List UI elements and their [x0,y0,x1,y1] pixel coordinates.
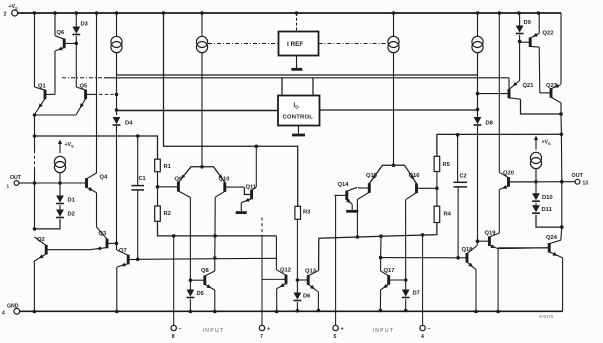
wire Q10 base to Q11 base jog [244,187,250,194]
wire Io CONTROL ground stem [298,126,300,134]
transistor Q10 [215,176,244,197]
wire Q13 emitter to gnd [317,292,319,311]
wire CS1 to D4 node [116,53,118,116]
wire Q17 emitter to gnd [379,290,381,311]
wire OUT node vertical dashed part [34,150,36,170]
wire D6 to gnd [296,302,298,311]
diode D10 [532,193,553,201]
wire Q12 base from pin7 line [262,278,284,280]
node CS4/Io line [476,108,480,112]
wire I REF to CS3 (dash-dot) [319,43,390,45]
wire R5-R4 [436,172,438,207]
svg-text:C2: C2 [460,174,467,180]
ground Io CONTROL ground [292,134,305,137]
wire Q12 collector up to H1 corner [275,236,277,270]
wire D8 down to Q19 base node [477,126,479,241]
svg-text:Q12: Q12 [280,268,291,274]
node Q8 gnd [213,310,217,314]
transistor Q12 [277,268,291,289]
ground Q14 ground [346,210,358,213]
node Q15 collector on H2 [356,235,360,239]
resistor R1 [155,159,172,172]
node Q2 gnd [33,310,37,314]
node D6/Q12/Q13 base node [296,278,300,282]
resistor R2 [155,206,171,221]
svg-text:–: – [179,327,182,333]
wire D4 node down [116,126,118,243]
diode D9 [516,20,532,34]
wire y136 line [35,136,158,159]
svg-text:Q10: Q10 [219,176,230,182]
node Q11 collector junction [254,145,258,149]
svg-text:Q22: Q22 [543,31,554,37]
node C1 top [136,134,140,138]
node Q7 base junction [136,258,140,262]
svg-text:OUT: OUT [572,173,584,179]
transistor Q1 [35,83,56,114]
svg-text:Q5: Q5 [80,83,89,89]
wire R3 down to D6 node [296,219,298,280]
diode D3 [75,13,77,27]
node Q8 base [189,278,193,282]
svg-text:Q14: Q14 [338,182,350,188]
resistor R5 [434,156,451,171]
transistor Q23 [540,83,561,103]
svg-text:CONTROL: CONTROL [283,115,314,121]
wire y257.5 line right [381,257,459,259]
wire x562 to Q24 collector [561,227,562,240]
wire C1 bottom stem [137,190,139,259]
wire Q16 collector down to Q17 base [405,200,407,280]
wire D7 to gnd [405,299,407,310]
node Q6 base [75,42,79,46]
transistor Q2 [34,237,89,261]
wire CS3 tail [393,53,395,165]
wire CS2 tail [201,53,203,167]
svg-text:R4: R4 [444,212,452,218]
wire R1 to Q9 base node [157,172,159,206]
wire D9 node down to Q21 emitter [519,41,521,80]
node C2 top tap [456,133,460,137]
wire Q9 collector down to Q8 base [189,198,191,281]
svg-text:R5: R5 [443,162,451,168]
resistor R4 [434,206,452,222]
wire Q8 collector up [214,258,216,271]
node D11 bottom junction [560,225,564,229]
svg-text:D10: D10 [542,195,553,201]
wire I REF ground stem [296,56,298,69]
svg-text:+VS: +VS [9,4,19,11]
ground Q11 ground [236,211,247,214]
wire Q18 emitter to gnd [475,270,477,312]
wire Q5 base dash-dot to CS1 line [99,93,114,95]
svg-text:Q18: Q18 [462,247,474,253]
diode D7 [402,290,420,298]
wire D3 node to Q5 collector [75,43,77,87]
wire x562 rail drop mid [560,114,562,134]
transistor Q11 [241,184,257,202]
transistor Q9 [158,176,191,197]
node right rail x562 y134 [560,133,564,137]
wire tail to Q10 [202,167,225,183]
node Q18 gnd [474,310,478,314]
diode D3 [72,22,88,35]
block Io CONTROL [278,96,320,126]
transistor Q22 [520,31,554,48]
wire x381 H2 to y257 [380,236,382,257]
wire D11 to junction [536,215,562,227]
svg-text:Q23: Q23 [546,83,558,89]
node Q13 gnd [317,309,321,313]
svg-text:Q11: Q11 [246,184,257,190]
svg-text:Q20: Q20 [503,171,514,177]
wire B line drop to Q21 [508,78,510,89]
wire Q6 collector to rail [54,13,56,36]
wire bias line B solid to Q21 [104,77,509,79]
node Q16 base feed [435,187,439,191]
svg-text:D11: D11 [542,207,553,213]
svg-text:7: 7 [260,334,263,340]
wire CS3 feed [393,13,395,37]
diode D6 [294,293,312,301]
svg-text:S-9176: S-9176 [539,314,554,319]
transistor Q16 [406,173,437,200]
wire Q21 collector path [521,99,562,114]
svg-text:R2: R2 [164,211,171,217]
node Q4 base feed [58,181,62,185]
current source CS2 [196,36,207,52]
current source CS6 right [530,152,541,168]
node D2 junction [33,227,37,231]
wire Q4 emitter to Q3 [96,193,98,227]
resistor R3 [295,206,311,219]
wire right rail drop to Q23 emitter [560,13,562,84]
wire bias drop left into Io CONTROL [281,78,283,96]
svg-text:Q24: Q24 [546,235,558,241]
wire D9 to Q22 base node [519,35,521,41]
wire D1 stem [59,183,61,196]
terminal pin 8 input- [171,325,182,340]
svg-text:Q17: Q17 [384,268,395,274]
wire D1-D2 [59,205,61,209]
wire bias line A (CS1 to CS4) [117,74,478,76]
terminal pin 5 input+ [333,325,345,340]
wire Q13 collector up to H2 [319,223,437,271]
wire Q19 emitter to Q24 base [498,247,548,250]
wire Q4 collector to rail [96,13,98,173]
svg-text:Q8: Q8 [201,268,210,274]
node Q18 base / C2 [456,256,460,260]
node Q3 base [115,242,119,246]
diode D1 [56,196,76,204]
current source CS1 [111,36,122,52]
node Q19 base [476,239,480,243]
svg-text:Q3: Q3 [99,231,108,237]
diode D5 [187,290,205,298]
node D7 gnd [404,309,408,313]
terminal pin 2 (+Vs) [4,4,19,18]
wire Q11 emitter stem [240,203,242,212]
wire Q19 base node to Q18 collector [476,241,479,246]
wire Io CONTROL left to CS1 line [117,110,279,112]
node Q10 collector on H1 [213,234,217,238]
svg-text:D7: D7 [413,291,420,297]
transistor Q7 [117,248,138,267]
wire Q2 emitter to ground rail [33,261,35,312]
svg-text:D4: D4 [125,121,133,127]
node y136 tap [33,134,37,138]
current source CS3 [388,36,399,52]
node top rail junctions [33,11,37,15]
wire y146 line [164,13,298,206]
svg-text:Q13: Q13 [305,269,317,275]
terminal pin 7 input+ [259,325,271,340]
capacitor C2 [454,174,468,187]
wire D10 stem [535,182,537,194]
node y257 left end [379,256,383,260]
wire I REF to CS2 (dash-dot) [208,43,279,45]
svg-text:2: 2 [4,12,7,18]
svg-text:–: – [428,327,431,333]
wire x562 down to D11 join [561,182,563,227]
wire pin8 up to H1 [173,236,175,325]
wire CS1 feed [116,13,118,37]
wire tail to Q16 [394,165,417,183]
svg-text:R3: R3 [303,210,311,216]
node Q17 base [404,278,408,282]
wire Q7 emitter to ground [116,267,118,312]
wire pin5 up to Q14 base [335,195,336,325]
wire Q22 collector to Q23 base [538,47,541,93]
+Vs arrow [534,136,551,150]
node Q22 base [518,40,522,44]
svg-text:Q9: Q9 [175,176,184,182]
wire Q22 emitter to rail [538,13,540,34]
svg-text:D9: D9 [524,20,532,26]
wire Q19 emitter to gnd [497,249,499,312]
node Q9 base feed [156,185,160,189]
diode D2 [56,210,75,218]
wire D5 stem [189,280,191,289]
wire tail to Q15 [369,165,393,183]
node left tail [200,165,204,169]
node pin4 on H2 [421,233,425,237]
svg-text:+VS: +VS [65,142,75,149]
wire pin4 up to H2 [422,235,424,325]
wire D6 stem [296,280,298,293]
wire Q1 collector to rail [34,13,36,87]
diode D9 [519,13,521,26]
wire Q11 collector up [255,146,257,187]
diode D11 [532,205,552,213]
wire Q24 emitter to gnd end [562,258,564,312]
terminal pin 13 OUT [572,173,589,187]
svg-text:Q15: Q15 [366,173,378,179]
wire D10-D11 [535,203,537,205]
wire Q12 emitter to gnd [276,289,278,312]
svg-text:D3: D3 [81,22,89,28]
svg-text:Q6: Q6 [57,30,66,36]
svg-text:Q19: Q19 [485,231,497,237]
wire bias line B dash-dot from Q6 [62,77,104,79]
wire CS4 feed [477,13,479,37]
svg-text:4: 4 [421,334,424,340]
wire C2 bottom stem [457,187,459,258]
svg-text:R1: R1 [164,164,172,170]
wire Q15 collector down to H2 [356,200,358,238]
transistor Q15 [357,173,377,200]
transistor Q14 [335,182,358,204]
node x381 on H2 [379,234,383,238]
svg-text:D8: D8 [486,121,494,127]
wire CS5 to OUT line [59,173,61,184]
transistor Q13 [297,269,318,293]
wire y134.5 line [437,134,562,156]
wire Q8 emitter to gnd [214,290,216,312]
svg-text:D1: D1 [68,198,76,204]
node D5 gnd [189,310,193,314]
diode D4 [113,117,134,127]
svg-text:8: 8 [172,334,175,340]
wire Q3 base node to Q7 collector [116,243,118,250]
wire D2 to Q2 collector node [35,219,61,229]
node Q7 gnd [115,310,119,314]
wire D5 to gnd [189,299,191,311]
svg-text:Q2: Q2 [37,237,45,243]
node D10 top [534,180,538,184]
current source CS5 left [54,156,65,172]
svg-text:5: 5 [334,334,337,340]
wire Q10 collector down [214,197,216,236]
ground I REF ground [291,68,302,71]
terminal pin 4b input- [420,325,431,340]
wire Q17 collector up [380,258,382,271]
transistor Q19 [479,231,500,249]
terminal pin 1 OUT [7,175,22,189]
svg-text:D2: D2 [68,212,75,218]
wire D7 stem [405,280,407,290]
svg-text:Q16: Q16 [409,173,421,179]
node Q12 gnd [275,310,279,314]
transistor Q5 [76,83,97,114]
node CS1/Io line [115,108,119,112]
transistor Q6 [55,30,76,51]
svg-text:I REF: I REF [287,41,303,48]
node Q17 gnd [379,309,383,313]
wire Q23 collector drop [560,103,562,114]
wire Io CONTROL right to CS4 line [320,109,478,111]
svg-text:4: 4 [2,311,5,317]
wire +Vs top rail [18,12,561,14]
node D6 gnd [296,309,300,313]
wire pin7 upper dashed [261,215,263,238]
transistor Q21 [478,81,534,100]
svg-text:1: 1 [7,184,10,189]
wire Q20 emitter down to Q19 [498,190,500,234]
wire Q6 emitter to Q1 base [54,51,56,94]
transistor Q17 [381,268,406,290]
svg-text:INPUT: INPUT [203,328,225,334]
transistor Q24 [498,235,562,258]
wire Q14 emitter stem [351,204,353,210]
terminal pin 4 GND [2,304,20,317]
wire C1 top stem [137,136,139,186]
wire y258 line left [138,258,277,259]
transistor Q20 [499,171,535,190]
svg-text:Q7: Q7 [119,248,127,254]
node Q21/Q23 collectors [559,112,563,116]
block I REF [279,32,319,56]
wire Q1/Q5 emitter join [35,114,77,116]
wire CS4 down to Q21 base node [477,53,479,116]
wire Q20 collector to rail [498,13,500,172]
+Vs arrow [58,140,74,154]
svg-text:13: 13 [583,181,589,187]
node emitter join [33,113,37,117]
svg-text:INPUT: INPUT [373,328,395,334]
wire I REF supply (dashed) [296,13,298,32]
wire OUT line to Q4 base [35,182,85,184]
wire C2 top stem [457,135,459,183]
diode D8 [474,117,494,127]
wire CS6 to OUT node [535,169,537,182]
svg-text:C1: C1 [139,176,146,182]
wire D3 to Q6 base node [75,36,77,43]
wire OUT node vertical [34,115,36,150]
transistor Q8 [190,268,214,290]
node Q19 gnd [496,310,500,314]
svg-text:Q4: Q4 [100,175,109,181]
node Q8 collector junction [213,256,217,260]
current source CS4 [472,36,483,52]
node right tail [392,163,396,167]
wire bias drop right into Io CONTROL [312,78,314,96]
wire OUT to node [19,182,35,184]
wire ground rail [20,310,563,312]
transistor Q4 [60,173,108,193]
transistor Q18 [458,246,477,270]
wire CS2 feed [201,13,203,37]
svg-text:D6: D6 [303,294,311,300]
node Q5 base bias [115,93,119,97]
node OUT tap [33,181,37,185]
svg-text:D5: D5 [197,291,205,297]
wire R2 bottom to H1 [158,221,277,236]
svg-text:Q21: Q21 [523,83,535,89]
transistor Q3 [90,227,117,250]
capacitor C1 [131,176,145,190]
node right OUT node [560,180,564,184]
wire tail to Q9 [178,167,202,183]
svg-text:+VS: +VS [542,140,552,147]
svg-text:Q1: Q1 [38,83,47,89]
node pin8 on H1 [172,234,176,238]
wire pin7 up [261,238,263,325]
diode D8 [477,109,479,117]
node Q21 base [476,92,480,96]
wire right OUT line [509,181,575,183]
